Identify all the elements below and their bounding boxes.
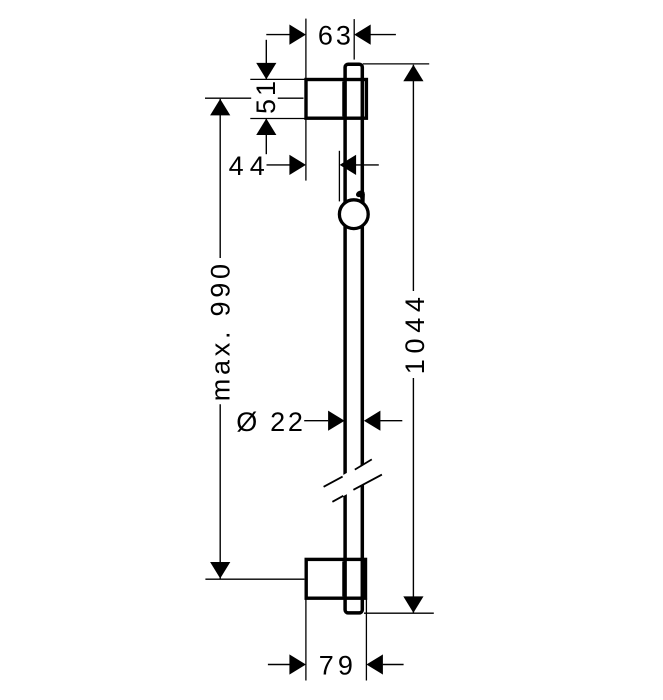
svg-text:51: 51 <box>251 78 281 114</box>
svg-text:Ø 22: Ø 22 <box>236 407 305 437</box>
svg-text:44: 44 <box>229 151 271 181</box>
dim diameter22 right tail <box>380 420 402 422</box>
dim 79 left tail <box>268 664 290 666</box>
dim 51 top arrow <box>256 63 276 80</box>
dim 44 left arrow <box>289 155 306 175</box>
dim 79 left extension line <box>305 598 307 680</box>
dim 79 right tail <box>383 664 404 666</box>
dim max990 bottom extension line <box>205 578 304 580</box>
slider ring <box>339 200 368 229</box>
dim 63 left extension line <box>305 19 307 79</box>
dim 63 right tail <box>371 34 396 36</box>
dim 63 left tail <box>266 34 289 36</box>
dim max990 dimension line <box>219 99 221 258</box>
dim 51 bottom extension line <box>250 118 305 120</box>
break diagonal upper <box>324 459 372 486</box>
dim 51 top extension line <box>250 78 305 80</box>
dim 1044 bottom arrow <box>403 596 423 613</box>
dim 1044 bottom extension line <box>364 612 434 614</box>
dim diameter22 right arrow <box>364 411 381 431</box>
bottom bracket inner thin line <box>342 561 344 596</box>
dim 1044 dimension line <box>412 65 414 291</box>
bottom wall bracket <box>306 559 365 598</box>
dim max990 top arrow <box>210 99 230 116</box>
slider hook <box>355 189 366 198</box>
dim 51 dimension line <box>265 40 267 80</box>
dim 1044 top extension line <box>363 63 429 65</box>
dim 44 left extension line <box>305 119 307 180</box>
dim 79 right extension line <box>365 598 367 680</box>
dim 63 left arrow <box>289 25 306 45</box>
dim 63 right extension line <box>353 19 355 60</box>
svg-text:79: 79 <box>319 651 357 681</box>
dim diameter22 left arrow <box>328 411 345 431</box>
dim max990 bottom arrow <box>210 562 230 579</box>
dim 1044 top arrow <box>403 65 423 82</box>
dim 44 right extension line <box>338 151 340 202</box>
dim 51 bottom arrow <box>256 119 276 136</box>
tube break white band <box>321 456 386 503</box>
svg-text:63: 63 <box>318 21 354 51</box>
dim 44 right tail <box>356 164 379 166</box>
dim 44 right arrow <box>340 155 357 175</box>
svg-text:1044: 1044 <box>400 291 430 374</box>
dim 79 left arrow <box>289 654 306 674</box>
dim max990 top extension line <box>205 97 251 99</box>
shower bar tube body <box>345 64 362 613</box>
dim 79 right arrow <box>366 654 383 674</box>
break diagonal lower <box>332 475 382 502</box>
svg-text:max. 990: max. 990 <box>206 260 236 401</box>
dim 44 left tail <box>267 164 290 166</box>
dim 63 right arrow <box>354 25 371 45</box>
slider hook junction <box>360 194 365 203</box>
top wall bracket <box>306 80 366 119</box>
top bracket inner thin line <box>342 81 344 116</box>
dim diameter22 left tail <box>304 420 328 422</box>
